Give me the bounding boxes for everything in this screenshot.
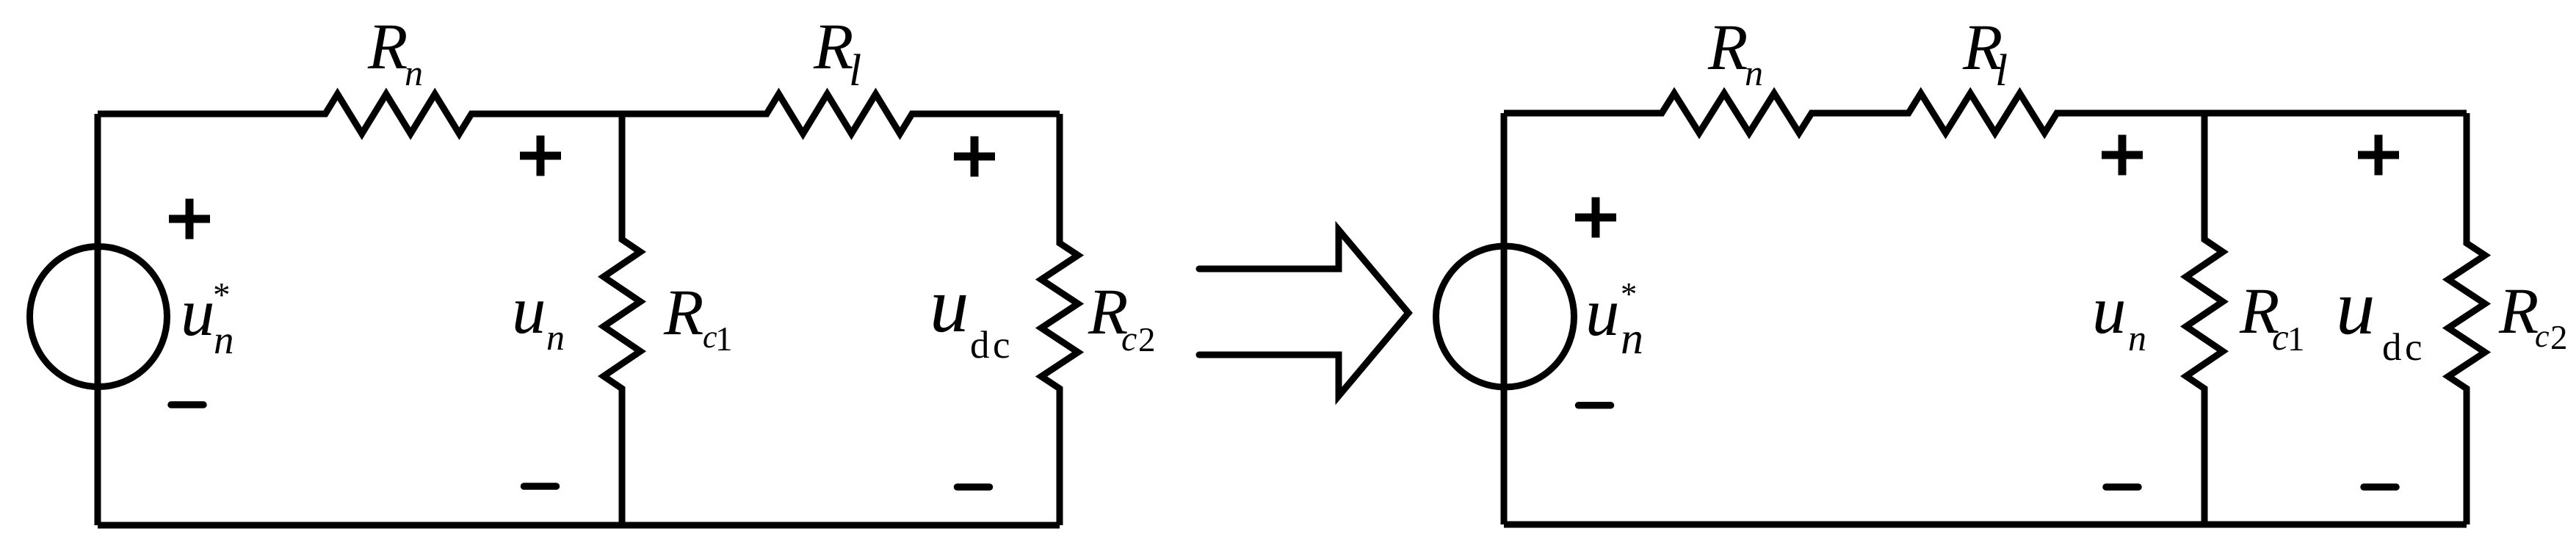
svg-text:u: u <box>2092 273 2127 348</box>
svg-text:c: c <box>1121 320 1137 358</box>
svg-text:dc: dc <box>2382 326 2425 369</box>
svg-text:c: c <box>2272 317 2289 358</box>
svg-text:R: R <box>367 11 408 83</box>
svg-text:u: u <box>512 273 546 348</box>
svg-text:u: u <box>930 262 969 349</box>
svg-text:n: n <box>2128 317 2146 358</box>
svg-text:2: 2 <box>1138 321 1156 359</box>
svg-text:u: u <box>181 275 215 350</box>
svg-text:R: R <box>663 277 703 349</box>
svg-text:l: l <box>1995 46 2008 95</box>
svg-text:1: 1 <box>2287 320 2305 358</box>
svg-text:u: u <box>2336 264 2376 351</box>
svg-text:l: l <box>849 46 861 95</box>
svg-text:*: * <box>213 276 231 314</box>
svg-text:u: u <box>1585 275 1620 350</box>
svg-text:R: R <box>2498 275 2539 347</box>
svg-text:R: R <box>813 11 853 83</box>
svg-text:1: 1 <box>715 320 733 358</box>
svg-text:2: 2 <box>2550 319 2568 357</box>
svg-text:n: n <box>214 317 234 362</box>
svg-text:n: n <box>546 317 565 358</box>
svg-text:dc: dc <box>970 324 1013 367</box>
svg-text:R: R <box>1707 12 1748 84</box>
svg-text:c: c <box>2535 318 2550 354</box>
svg-text:*: * <box>1621 275 1637 312</box>
svg-text:n: n <box>405 52 423 93</box>
svg-text:n: n <box>1745 52 1763 93</box>
svg-text:n: n <box>1621 314 1643 364</box>
